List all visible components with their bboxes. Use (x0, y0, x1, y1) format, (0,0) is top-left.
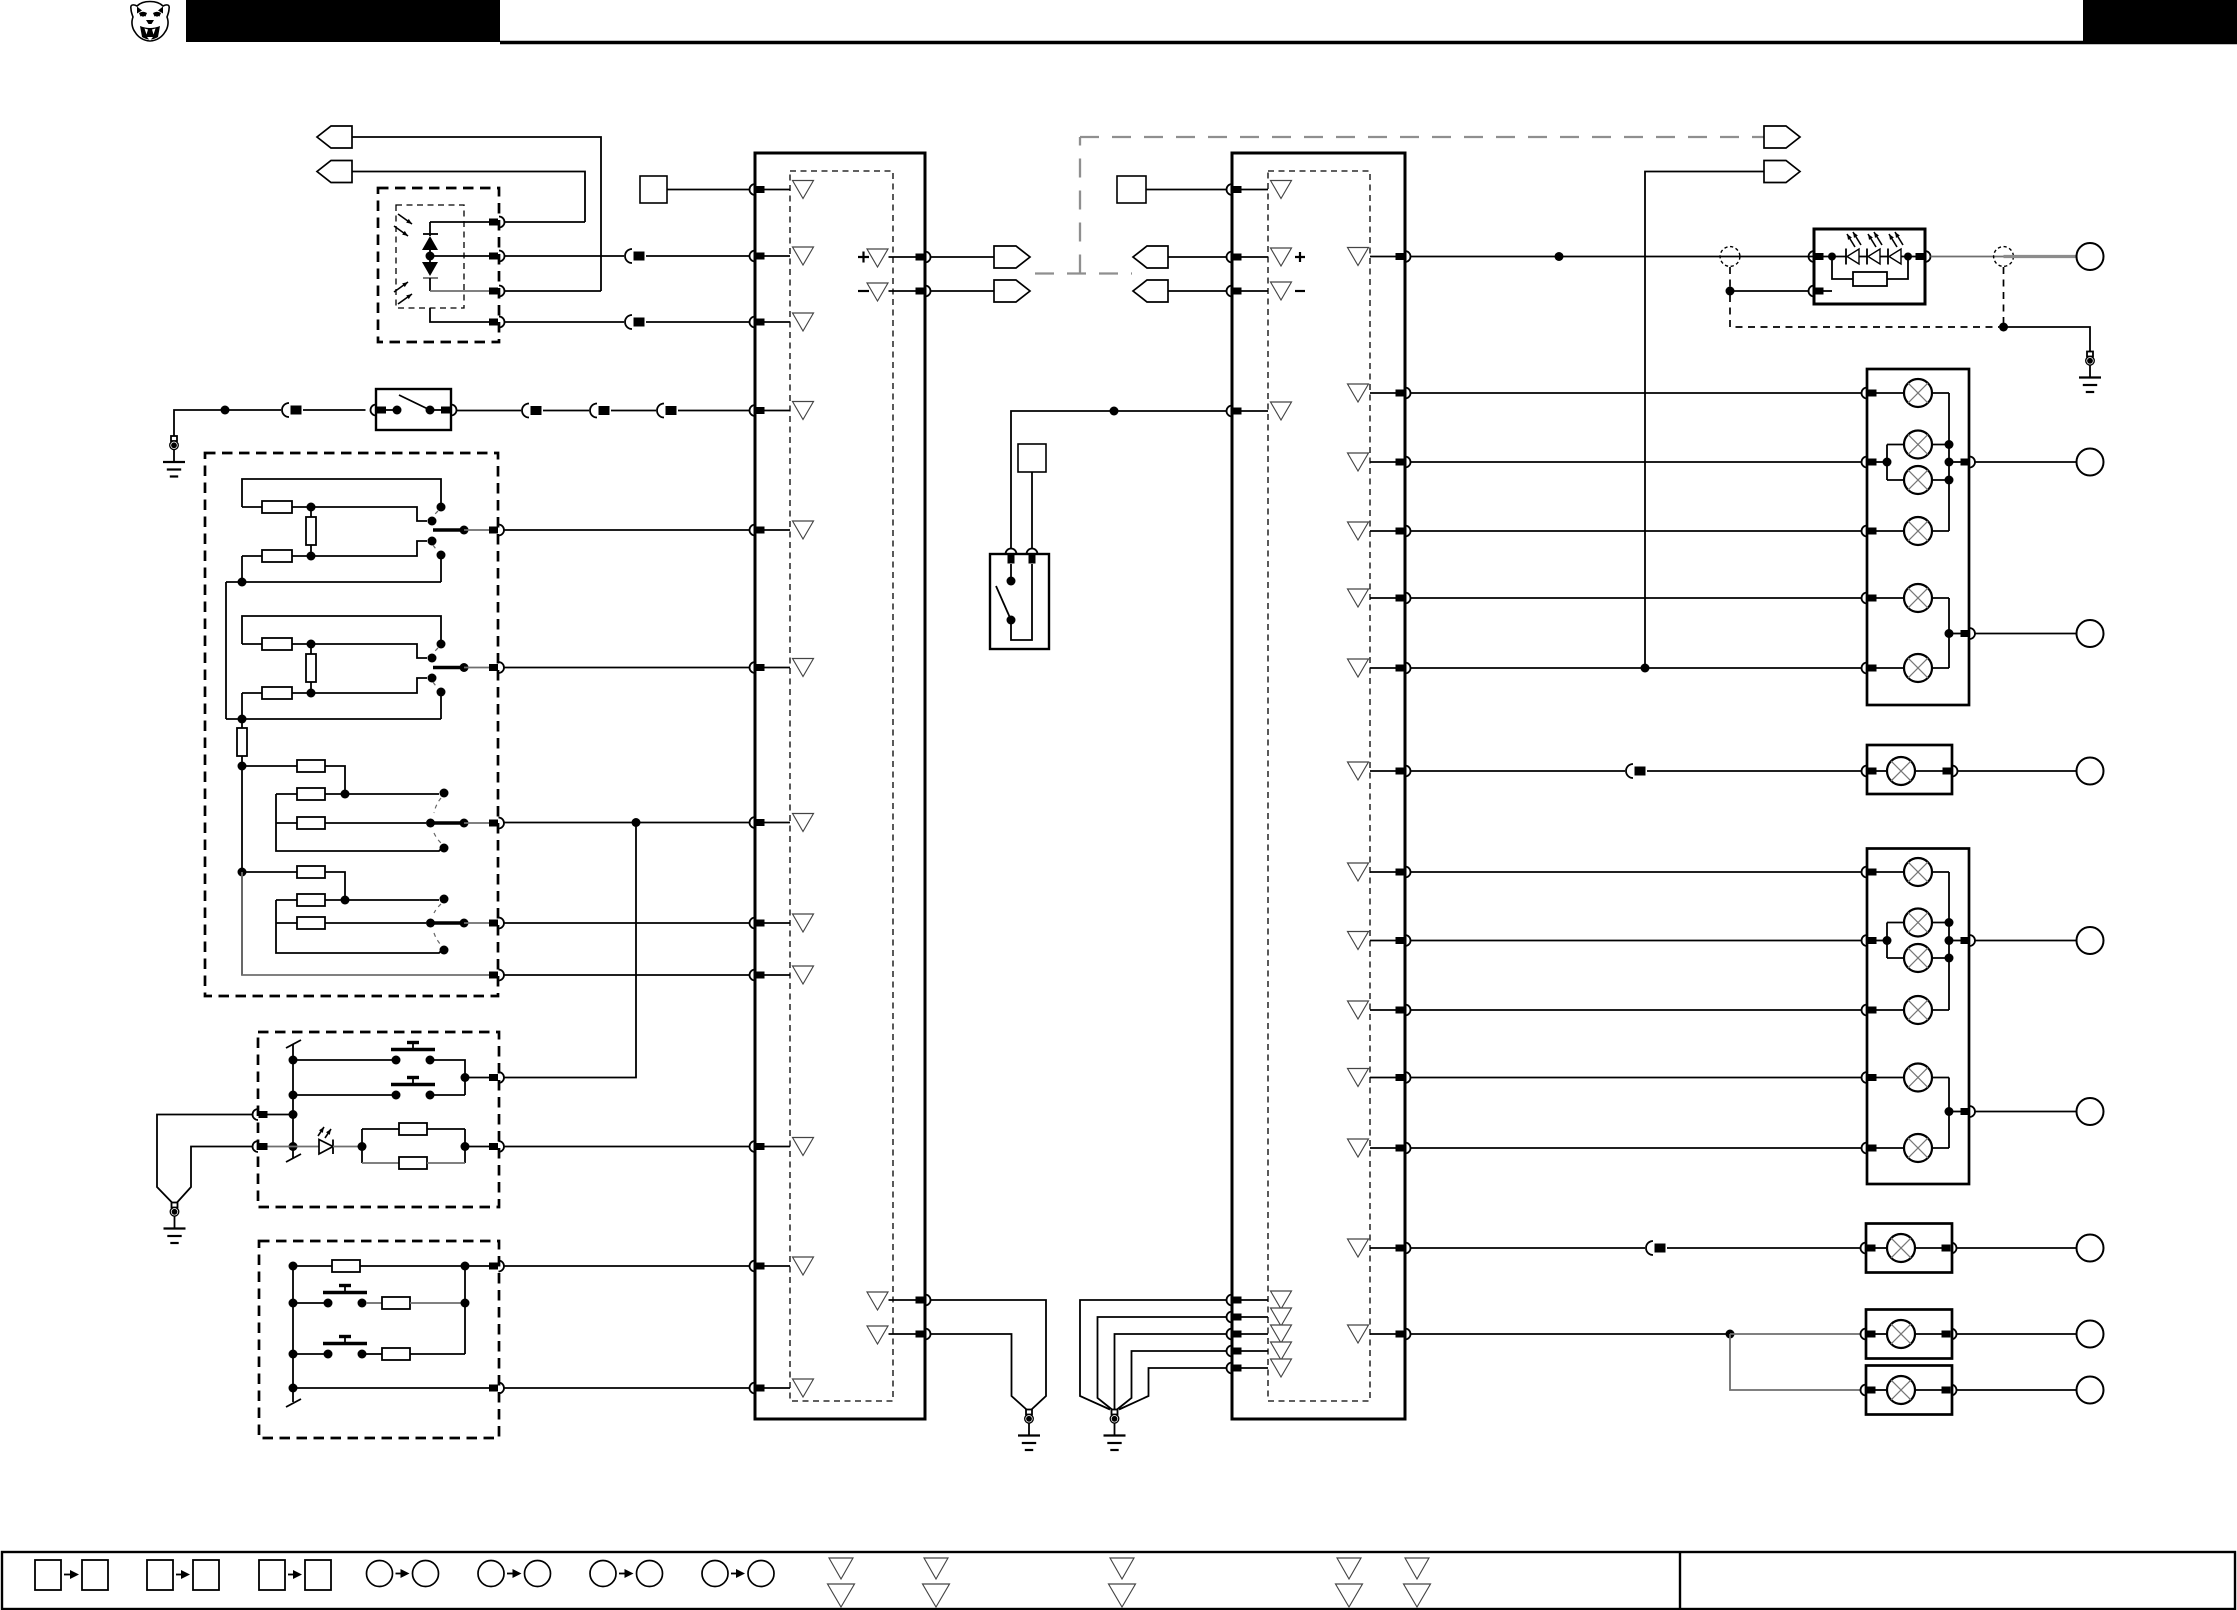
wire right module pins to ground funnel 2 (1098, 1317, 1227, 1410)
wire R3 to contact 3 (311, 541, 427, 556)
wire tail lamp LH 1 (1411, 871, 1862, 873)
stop lamp switch right pin (441, 405, 457, 416)
network3 junction dot (341, 790, 350, 799)
left module inner dashed boundary (790, 171, 893, 1401)
right module left pin 1 (1227, 184, 1269, 195)
LED D2 emission arrows (394, 282, 412, 304)
splice dot on HMSL wire (1555, 252, 1564, 261)
column switch pack dashed box (258, 1032, 499, 1207)
left module pin L3 (750, 317, 790, 328)
ground G5 ring terminal (2079, 352, 2101, 393)
hazard switch internal wire (1011, 564, 1032, 640)
wire right module pins to ground funnel 1 (1080, 1300, 1227, 1410)
network1 rotary contacts (428, 503, 446, 560)
wire HMSL to connector J2 (1931, 256, 2004, 258)
G rail dots (289, 1262, 298, 1393)
right module bottom-left pin 1 (1227, 1295, 1269, 1306)
left module pin L5 (750, 525, 790, 536)
wire arrow to right module + (1168, 256, 1227, 258)
in-line connector fog RH (1625, 763, 1647, 779)
right module right pin R5 triangle (1348, 589, 1369, 607)
cluster RH output pin 462 (1961, 457, 1976, 468)
bulb tail LH inner (1877, 996, 1950, 1024)
black header title bar (186, 0, 500, 42)
stop lamp switch box (376, 389, 451, 430)
wire F output to dot at E pin3 net (504, 823, 636, 1078)
right module right pin R11 (1370, 1072, 1411, 1083)
in-line connector on pin4 wire (624, 314, 646, 330)
wire to network4 top contact (345, 899, 439, 901)
bulb stop LH a (1904, 909, 1949, 937)
HMSL pin 2 (1809, 286, 1824, 297)
wire flasher pin3 to arrow A riser (505, 290, 602, 292)
switch pack pin 2 (489, 1383, 504, 1394)
left module output pin + (row 256.5) (889, 252, 931, 263)
right module bottom-left pin 4 triangle (1271, 1342, 1292, 1360)
right module right pin R8 triangle (1348, 863, 1369, 881)
cluster RH pin 531 (1862, 526, 1877, 537)
right bracket LH upper (1945, 872, 1961, 1010)
wire right module pins to ground funnel 3 (1115, 1334, 1227, 1410)
network4 wiper output (426, 919, 489, 928)
arrow connector + (right-pointing) (994, 246, 1030, 268)
cluster LH pin 872 (1862, 867, 1877, 878)
right module right pin R8 (1370, 867, 1411, 878)
HMSL ground solid wire (2004, 327, 2091, 352)
wire - output to arrow (931, 290, 995, 292)
R3 junction dot (307, 552, 316, 561)
right module right pin R10 triangle (1348, 1001, 1369, 1019)
left module pin L3 destination triangle (793, 313, 814, 331)
HMSL ground dashed drop J1 (1726, 267, 1735, 296)
right module right pin R3 (1370, 457, 1411, 468)
wire cluster RH to terminal T2 (1975, 633, 2076, 635)
junction dot F output (461, 1073, 490, 1082)
right module right pin R3 triangle (1348, 453, 1369, 471)
wire flasher pin1 to arrow B riser (505, 221, 586, 223)
fog lamp RH box (1867, 745, 1952, 794)
right module left pin 1 triangle (1271, 181, 1292, 199)
stop bulbs bracket RH (1887, 445, 1904, 481)
in-line connector 1 after switch (521, 403, 543, 419)
terminal circle marker lamp D (2077, 1377, 2104, 1404)
wire reverse RH (1411, 667, 1862, 669)
network2 top rail (242, 616, 441, 644)
marker lamp C pin right (1942, 1329, 1957, 1340)
number plate lamp pin right (1942, 1243, 1957, 1254)
right module bottom-left pin 3 triangle (1271, 1325, 1292, 1343)
lighting switch pin 3 (489, 818, 504, 829)
network2 wiper output (433, 663, 489, 672)
wire from arrow B to flasher pin 1 (352, 172, 585, 223)
cluster RH output pin 633 (1961, 628, 1976, 639)
left module pin L7 destination triangle (793, 814, 814, 832)
left module pin L4 destination triangle (793, 402, 814, 420)
net3-net4 rail (238, 762, 247, 976)
network3 contacts (434, 789, 449, 853)
cluster RH pin 462 (1862, 457, 1892, 468)
push button branch 1 wire (293, 1059, 393, 1061)
wire G pin2 to module (504, 1387, 750, 1389)
R1 junction dot (307, 503, 316, 512)
heavy feed wire J2 to terminal (2004, 255, 2077, 258)
bulb tail RH inner (1877, 517, 1950, 545)
in-line connector 3 after switch (656, 403, 678, 419)
left module bottom-right pin 1334 (889, 1329, 931, 1340)
legend triangle pair 1 (828, 1558, 855, 1607)
terminal circle marker lamp C (2077, 1321, 2104, 1348)
left module pin L1 destination triangle (793, 181, 814, 199)
wire tail lamp RH 1 (1411, 392, 1862, 394)
legend triangle pair 3 (1109, 1558, 1136, 1607)
wire switch pin1 to module (504, 529, 750, 531)
right module right pin R6 (1370, 663, 1411, 674)
push button switch 1 (391, 1043, 435, 1065)
terminal circle T2 (2077, 620, 2104, 647)
terminal circle T5 (2077, 1098, 2104, 1125)
terminal circle T4 (2077, 927, 2104, 954)
rail junction dots (289, 1056, 298, 1152)
left module pin L1 (750, 184, 790, 195)
column switch pack pin 2 (out) (489, 1141, 504, 1152)
wire flasher pin4 to module (505, 321, 750, 323)
G common rail (286, 1266, 301, 1407)
flasher internal wire pin3 (430, 290, 489, 292)
plus label and triangle (left module) (858, 249, 888, 267)
marker lamp C pin left (1861, 1329, 1876, 1340)
bulb reverse RH (1877, 654, 1950, 682)
ground G4 ring terminal (1104, 1410, 1126, 1451)
left module pin L10 destination triangle (793, 1138, 814, 1156)
lighting switch pin 1 (489, 525, 504, 536)
triangle pin 1300 (867, 1292, 888, 1310)
cluster RH pin 393 (1862, 388, 1877, 399)
right module right pin R1 (1370, 251, 1411, 262)
lighting switch pin 4 (489, 918, 504, 929)
switch pack pin 1 (489, 1261, 504, 1272)
turn indicator LED unit outer dashed box (378, 188, 499, 342)
wire F ground1 to funnel (157, 1115, 253, 1203)
right module left pin 4 (1227, 406, 1269, 417)
resistor R12 (276, 894, 345, 906)
ground G1 ring terminal and ground (163, 436, 185, 477)
right module inner dashed boundary (1268, 171, 1370, 1401)
left module pin L9 destination triangle (793, 966, 814, 984)
right module right pin R2 triangle (1348, 384, 1369, 402)
HMSL LED emission arrows (1847, 232, 1903, 247)
wire marker lamp C to terminal (1957, 1333, 2077, 1335)
in-line connector on pin2 wire (624, 248, 646, 264)
LED D1 (upward) (422, 222, 438, 250)
right module right pin R14 (1370, 1329, 1411, 1340)
wire reverse LH (1411, 1147, 1862, 1149)
HMSL pin 3 (1916, 251, 1931, 262)
left module pin L9 (750, 970, 790, 981)
junction dot on ground wire (221, 406, 230, 415)
wire + output to arrow (931, 256, 995, 258)
cluster RH pin 668 (1862, 663, 1877, 674)
number plate lamp pin left (1861, 1243, 1876, 1254)
connector block square (right module pin1) (1117, 176, 1146, 203)
stop lamp switch left pin (371, 405, 386, 416)
hazard switch box (990, 554, 1049, 649)
left module pin L2 (750, 251, 790, 262)
wire to marker lamp D (1730, 1334, 1862, 1390)
twisted pair gray dashed link (1035, 137, 1764, 274)
rear lamp cluster LH box (1867, 849, 1969, 1185)
cluster LH pin 1148 (1862, 1143, 1877, 1154)
R4 junction dot (307, 640, 316, 649)
cluster LH pin 940 (1862, 935, 1892, 946)
resistor RG1 (293, 1260, 489, 1272)
HMSL ground dashed path (1730, 267, 2004, 327)
right module right pin R11 triangle (1348, 1069, 1369, 1087)
wire to marker lamp C (1730, 1333, 1862, 1335)
left module pin L11 (750, 1261, 790, 1272)
wire from arrow A to flasher pin 3 (352, 137, 601, 291)
right module right pin R7 (1370, 766, 1411, 777)
arrow connector + (left-pointing, right module) (1133, 246, 1168, 268)
G push button 1 (323, 1286, 367, 1308)
rear lamp control module (left) box (755, 153, 925, 1419)
junction dot F-feed (632, 818, 641, 827)
network3 left bracket (276, 794, 441, 851)
resistor R9 (276, 788, 345, 800)
flasher internal wire pin2 (430, 255, 489, 257)
wire right module to HMSL connector (1411, 256, 1815, 258)
wire switch pin5 to module (504, 974, 750, 976)
lamp driver module (right) box (1232, 153, 1405, 1419)
bulb stop RH a (1904, 431, 1949, 459)
Jaguar logo emblem (131, 2, 169, 42)
LED module inner dashed box (396, 205, 464, 308)
legend triangle pair 4 (1336, 1558, 1363, 1607)
cluster LH output pin 1111 (1961, 1106, 1976, 1117)
right module right pin R4 triangle (1348, 522, 1369, 540)
wire hazard switch to right module (1011, 411, 1227, 549)
push button branch 2 wire (293, 1094, 393, 1096)
right module right pin R5 (1370, 593, 1411, 604)
wire R1 to contact 2 (311, 507, 427, 521)
wire tail lamp LH 2 (1411, 1009, 1862, 1011)
wire number plate lamp to terminal (1957, 1247, 2077, 1249)
junction dot HMSL ground (1999, 323, 2008, 332)
network1 rail dot (238, 578, 247, 587)
right module bottom-left pin 5 (1227, 1363, 1269, 1374)
terminal circle T1 (2077, 449, 2104, 476)
right bracket RH upper (1945, 393, 1961, 531)
plus mark right module (1295, 252, 1305, 262)
hazard switch contacts and lever (996, 564, 1016, 625)
network3 wiper output (426, 819, 489, 828)
bulb tail LH outer (1877, 858, 1950, 886)
wire tail lamp RH 2 (1411, 530, 1862, 532)
marker lamp C bulb (1876, 1320, 1942, 1348)
wire to network3 top contact (345, 793, 439, 795)
left module pin L6 (750, 662, 790, 673)
right module right pin R9 (1370, 935, 1411, 946)
G bracket vertical (461, 1266, 470, 1354)
left module pin L8 (750, 918, 790, 929)
wire fog lamp RH (1411, 770, 1862, 772)
resistor R2 (vertical) (306, 507, 316, 556)
left module output pin - (row 291) (889, 286, 931, 297)
right module right pin R12 triangle (1348, 1139, 1369, 1157)
wire number plate lamp (1411, 1247, 1862, 1249)
LED D2 (downward) (422, 262, 438, 291)
wire right module pins to ground funnel 4 (1117, 1351, 1227, 1410)
push button 2 output wire (434, 1094, 465, 1096)
left module pin L2 destination triangle (793, 247, 814, 265)
wire drop to HMSL pin2 (1730, 290, 1809, 292)
right module bottom-left pin 3 (1227, 1329, 1269, 1340)
wire square to left module pin1 (667, 189, 750, 191)
connector block square (left module pin1) (640, 176, 667, 203)
right module bottom-left pin 5 triangle (1271, 1359, 1292, 1377)
left module pin L5 destination triangle (793, 521, 814, 539)
bulb tail RH outer (1877, 379, 1950, 407)
left module pin L4 (750, 405, 790, 416)
bulb indicator RH (1877, 584, 1950, 612)
in-line connector circle J2 (dashed) (1994, 247, 2014, 267)
wire switch pin4 to module (504, 922, 750, 924)
column switch pack pin G1 (ground) (253, 1109, 294, 1120)
G push branch 1 wire (293, 1302, 324, 1304)
left module pin L12 (750, 1383, 790, 1394)
network2 bottom rail (226, 693, 441, 719)
right module left pin 2 (1227, 252, 1269, 263)
network1 bottom rail (226, 556, 441, 582)
resistor R1 (242, 501, 311, 513)
left module pin L11 destination triangle (793, 1257, 814, 1275)
legend connector pair squares 3 (259, 1560, 331, 1590)
wire square to hazard switch (1031, 472, 1033, 549)
flasher pin 2 (489, 251, 505, 262)
wire indicator LH (1411, 1077, 1862, 1079)
HMSL pin 1 (1809, 251, 1824, 262)
arrow connector - (right-pointing) (994, 280, 1030, 302)
in-line connector circle J1 (dashed) (1720, 247, 1740, 267)
ground G1 wire from stop lamp switch (174, 410, 366, 436)
resistor R10 (276, 817, 426, 829)
wire R6 to contact 3 (311, 678, 427, 693)
junction dot hazard wire (1110, 407, 1119, 416)
legend connector pair circles 3 (590, 1561, 663, 1587)
right bracket RH lower (1945, 598, 1961, 668)
off-page arrow C (gray, top right) (1764, 126, 1800, 148)
bulb indicator LH (1877, 1064, 1950, 1092)
network1 top rail (242, 479, 441, 507)
marker lamp D box (1866, 1366, 1952, 1415)
parallel resistor pair F (362, 1123, 489, 1169)
rear lamp cluster RH box (1867, 369, 1969, 705)
high mounted stop lamp box (1814, 229, 1925, 304)
ground G3 ring terminal (1018, 1410, 1040, 1451)
legend divider (1679, 1552, 1681, 1609)
resistor R11 (242, 866, 345, 900)
LED D1 emission arrows (394, 214, 412, 236)
legend triangle pair 2 (923, 1558, 950, 1607)
power terminal circle T0 (2077, 243, 2104, 270)
fog lamp RH bulb (1877, 757, 1943, 785)
right module right pin R6 triangle (1348, 659, 1369, 677)
marker lamp D pin left (1861, 1385, 1876, 1396)
legend connector pair circles 4 (702, 1561, 774, 1587)
wire stop/tail LH (1411, 940, 1862, 942)
stop bulbs bracket LH (1887, 923, 1904, 959)
hazard switch top pin 1 (1006, 549, 1017, 564)
cluster RH pin 598 (1862, 593, 1877, 604)
terminal circle T3 (2077, 758, 2104, 785)
in-line connector left of stop switch (281, 402, 303, 418)
network4 junction dot (341, 896, 350, 905)
resistor R13 (276, 917, 426, 929)
top-right black box (2083, 0, 2237, 43)
network1 wiper output (433, 526, 489, 535)
flasher internal wire pin4 (430, 308, 489, 322)
wire marker lamp D to terminal (1957, 1389, 2077, 1391)
rail link net1-net2 (225, 582, 227, 719)
G push button 2 (323, 1337, 367, 1359)
right module right pin R2 (1370, 388, 1411, 399)
cluster LH pin 1077 (1862, 1072, 1877, 1083)
header rule line (500, 41, 2237, 44)
LED F emission arrows (318, 1127, 331, 1138)
right module left pin 3 (1227, 286, 1269, 297)
wire cluster LH to terminal T5 (1975, 1111, 2076, 1113)
triangle pin 1334 (867, 1326, 888, 1344)
right module bottom-left pin 1 triangle (1271, 1291, 1292, 1309)
network common output wire (242, 872, 489, 975)
right bracket LH lower (1945, 1078, 1961, 1149)
junction dot marker split (1726, 1330, 1735, 1339)
G junction dot top (461, 1262, 470, 1271)
HMSL LED string (3 LEDs) (1824, 249, 1916, 265)
wire indicator RH (1411, 597, 1862, 599)
junction dot arrowD feed (1641, 664, 1650, 673)
bulb stop LH b (1904, 944, 1949, 972)
switch pack 2 dashed box (259, 1241, 499, 1438)
right module right pin R4 (1370, 526, 1411, 537)
illumination LED F (293, 1140, 367, 1155)
marker lamp D pin right (1942, 1385, 1957, 1396)
marker lamp D bulb (1876, 1376, 1942, 1404)
wire arrow D down to tail lamp feed (1645, 172, 1764, 669)
resistor RG2 (366, 1297, 465, 1309)
legend connector pair circles 1 (367, 1561, 439, 1587)
network4 contacts (434, 895, 449, 955)
terminal circle number plate lamp (2077, 1235, 2104, 1262)
flasher pin 3 (489, 286, 505, 297)
legend box (2, 1552, 2235, 1609)
right module right pin R1 triangle (1348, 248, 1369, 266)
right module left pin 2 triangle (1271, 248, 1292, 266)
ground G2 ring terminal (164, 1203, 186, 1244)
wire R4 to contact 2 (311, 644, 427, 658)
resistor R6 (242, 687, 311, 699)
off-page arrow B (317, 161, 352, 183)
push button 1 output wire (434, 1060, 465, 1095)
wire fog LH / marker (1411, 1333, 1730, 1335)
legend connector pair squares 1 (35, 1560, 108, 1590)
right module right pin R7 triangle (1348, 762, 1369, 780)
legend connector pair squares 2 (147, 1560, 219, 1590)
resistor RG3 (366, 1348, 465, 1360)
right module bottom-left pin 2 triangle (1271, 1308, 1292, 1326)
hazard switch top pin 2 (1027, 549, 1038, 564)
wire left module pin 1334 to ground funnel (931, 1334, 1027, 1410)
wire flasher pin2 to module (505, 255, 750, 257)
